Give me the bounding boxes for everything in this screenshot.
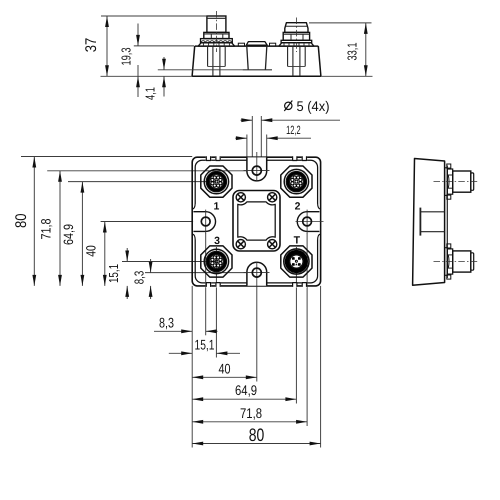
front view: screw 1	[236, 193, 245, 202]
svg-text:15,1: 15,1	[106, 264, 121, 283]
top view connector: molded skirt	[279, 43, 314, 46]
socket 1: octagonal bezel	[201, 166, 232, 197]
top view connector: skirt knurl ticks	[202, 43, 204, 46]
top view: body right slanted edge	[318, 46, 321, 76]
dimension 33.1: extension line top	[309, 22, 372, 24]
front view: bottom mounting tab	[247, 262, 267, 286]
side view connector: hex nut profile	[447, 249, 452, 274]
front view: top edge notch	[215, 156, 221, 161]
side view connector: hex nut profile	[447, 169, 452, 194]
top view: right connector bore lines	[292, 46, 294, 76]
socket 1: outer ring	[204, 169, 228, 193]
svg-text:12,2: 12,2	[286, 123, 301, 137]
dimension 80 horizontal: dimension line	[192, 443, 320, 445]
top view connector: knurled washer	[201, 39, 233, 43]
front view: left side hole (dia 5)	[201, 217, 210, 226]
top view connector: hex nut	[204, 32, 229, 38]
dimension 15.1 vertical: dimension line	[126, 248, 128, 262]
side view connector: flange	[445, 248, 448, 276]
socket 3: middle ring	[206, 251, 226, 271]
dimension dia 5 (4x): diameter symbol	[285, 102, 292, 109]
top view: edge bump left of center block	[238, 43, 244, 46]
front view: vertical extension line x=205.7 from left side hole	[205, 233, 207, 335]
front view: bottom tab hole crosshair horizontal	[244, 272, 270, 274]
front view: horizontal extension line y=272.6 (8.3) to bottom tab hole	[145, 272, 257, 274]
svg-text:71,8: 71,8	[39, 219, 54, 240]
front view: top mounting tab	[247, 157, 267, 181]
socket T: square pins	[292, 257, 295, 260]
top view: centerline right connector	[295, 18, 297, 53]
top view connector: nut chamfer line	[283, 33, 309, 35]
top view: bottom extension line right	[321, 75, 373, 77]
front view: horizontal extension line y=156.5 (80)	[21, 156, 192, 158]
socket 2: pins	[299, 182, 302, 185]
socket T: thick coupling ring	[287, 252, 306, 271]
front view: top edge notch	[302, 156, 308, 161]
side view: mounting slot bottom line	[420, 231, 444, 233]
svg-text:4,1: 4,1	[143, 87, 158, 100]
socket 1: thick coupling ring	[208, 173, 225, 190]
svg-text:19,3: 19,3	[118, 48, 133, 66]
dimension 64.9 horizontal: dimension line	[192, 398, 296, 400]
top view: bottom edge of body	[192, 75, 321, 77]
top view connector: molded skirt	[198, 43, 234, 46]
svg-text:8,3: 8,3	[159, 314, 174, 330]
front view: vertical extension line x=296.4 from socket T	[295, 247, 297, 404]
socket 2: thick coupling ring	[288, 173, 305, 190]
front view: top tab hole centerline vertical	[256, 152, 258, 182]
dimension 71.8 vertical: dimension line	[59, 171, 61, 286]
socket T: insert face	[290, 255, 303, 268]
socket T: outer ring	[284, 249, 309, 274]
front view: vertical extension lines hole dia 5 above	[251, 116, 253, 167]
socket 3: insert face	[210, 255, 224, 269]
top view connector: nut facet left	[210, 34, 212, 39]
dimension 33.1: dimension line	[365, 23, 367, 76]
front view: right slot mouth fillet bottom	[318, 234, 320, 240]
socket T: octagonal bezel	[281, 246, 312, 277]
front view: bottom edge notch	[302, 282, 308, 287]
svg-text:1: 1	[213, 201, 219, 213]
front view: vertical extension lines 12.2 above	[246, 135, 248, 158]
front view: top tab hole crosshair horizontal	[244, 170, 270, 172]
dimension 64.9 vertical: dimension line	[81, 182, 83, 286]
dimension 8.3 horizontal: dimension line	[154, 330, 192, 332]
dimension 15.1 horizontal: dimension line	[169, 352, 192, 354]
socket 2: middle ring	[286, 171, 306, 191]
svg-text:8,3: 8,3	[132, 271, 147, 285]
svg-text:5 (4x): 5 (4x)	[297, 98, 330, 114]
front view: screw 3	[236, 240, 245, 249]
front view: vertical extension line x=216.4 from socket 3	[215, 247, 217, 358]
front view: vertical extension line x=192.2 (bottom dims)	[191, 286, 193, 448]
dimension 80 vertical: dimension line	[33, 157, 35, 286]
front view: horizontal extension line y=182 (64.9) to socket row 1	[68, 181, 216, 183]
top view connector: hex nut	[283, 32, 309, 40]
socket 2: octagonal bezel	[281, 166, 312, 197]
dimension 12.2: dimension line	[235, 137, 247, 139]
dimension 40 horizontal: dimension line	[192, 376, 257, 378]
svg-text:3: 3	[214, 235, 220, 247]
svg-text:64,9: 64,9	[235, 382, 257, 398]
svg-text:15,1: 15,1	[195, 336, 215, 352]
front view: top edge notch	[206, 156, 212, 161]
side view connector: skirt bumps	[447, 244, 451, 248]
front view: right side hole crosshair horizontal	[296, 221, 324, 223]
side view: face plate line	[446, 166, 448, 279]
front view: left side hole crosshair vertical	[205, 210, 207, 234]
top view connector: nut facet left	[290, 34, 292, 40]
svg-text:80: 80	[13, 213, 30, 228]
side view connector: end cap	[471, 253, 474, 270]
side view connector: centerline	[434, 181, 479, 183]
top view connector: cap rim line	[286, 25, 308, 27]
socket 1: pins	[219, 182, 222, 185]
dimension 71.8 horizontal: dimension line	[192, 421, 307, 423]
dimension 19.3: dimension line	[137, 24, 139, 46]
top view: center block cap	[246, 42, 267, 46]
side view connector: thread cylinder	[453, 251, 471, 272]
svg-text:37: 37	[83, 38, 100, 53]
front view: body inner contour	[195, 160, 317, 283]
top view: right connector counterbore	[287, 46, 289, 66]
top view connector M12 male: thread cylinder	[207, 16, 226, 32]
front view: bottom edge notch	[292, 282, 298, 287]
socket 2: outer ring	[284, 169, 308, 193]
front view: right side mounting slot	[316, 204, 320, 240]
top view connector: skirt knurl ticks	[283, 43, 285, 46]
dimension 8.3 vertical: dimension line	[150, 259, 152, 273]
socket 1: middle ring	[206, 171, 226, 191]
side view: mounting slot top line	[420, 211, 444, 213]
top view: left connector bore lines	[212, 46, 214, 76]
svg-text:40: 40	[219, 360, 231, 376]
socket 3: outer ring	[204, 249, 228, 273]
front view: bottom edge notch	[206, 282, 212, 287]
dimension 4.1: dimension line	[163, 57, 165, 70]
top view: edge bump right of center block	[270, 43, 276, 46]
front view: right side hole (dia 5)	[303, 217, 312, 226]
front view: left side mounting slot	[193, 204, 197, 240]
front view: bottom tab hole centerline vertical	[256, 262, 258, 287]
top view: recess bottom line (4.1 feature)	[158, 69, 243, 71]
top view connector: washer scallops	[201, 41, 205, 43]
side view: mounting slot end bar	[419, 208, 421, 236]
front view: left slot mouth fillet bottom	[193, 234, 195, 240]
front view: vertical extension line x=307.1 from right side hole	[306, 233, 308, 426]
side view connector: end cap	[471, 173, 474, 190]
svg-text:71,8: 71,8	[240, 405, 262, 421]
dimension dia 5 (4x): dimension line	[241, 119, 253, 121]
top view connector: nut facet right	[222, 34, 224, 39]
dimension 40 vertical: dimension line	[104, 222, 106, 286]
svg-text:2: 2	[295, 201, 301, 213]
socket 2: insert face	[290, 175, 304, 189]
dimension 37: dimension line	[106, 16, 108, 76]
svg-text:64,9: 64,9	[61, 224, 76, 245]
front view: vertical extension line x=256.4 from bottom tab hole	[256, 277, 258, 382]
front view: horizontal extension line y=221.5 (40) to left side hole	[101, 221, 216, 223]
side view: body outline	[413, 159, 445, 286]
svg-text:40: 40	[84, 245, 99, 257]
front view: top edge notch	[292, 156, 298, 161]
top view: left connector counterbore	[207, 46, 209, 66]
top view: body left slanted edge	[192, 46, 195, 76]
front view: bottom edge notch	[215, 282, 221, 287]
front view: left slot mouth fillet top	[193, 203, 195, 209]
socket 3: pins	[219, 262, 222, 265]
top view connector: cap line	[207, 17, 226, 19]
front view: center square outer frame	[233, 191, 280, 252]
front view: bottom tab hole (dia 5)	[252, 268, 261, 277]
top view: center block left side	[247, 45, 249, 69]
socket 3: thick coupling ring	[208, 253, 225, 270]
top view connector: nut chamfer line	[204, 33, 229, 35]
top view connector M12 capped: protection cap	[285, 23, 308, 33]
front view: horizontal extension line y=170.8 (71.8) to top tab hole	[47, 170, 257, 172]
socket 1: insert face	[210, 175, 224, 189]
top view connector: nut facet right	[302, 34, 304, 40]
front view: body outer square	[192, 157, 320, 286]
front view: horizontal extension line y=261.5 (15.1) to socket row 2	[122, 261, 216, 263]
svg-text:33,1: 33,1	[345, 43, 360, 61]
front view: vertical extension line x=320.6 (bottom dims)	[320, 286, 322, 448]
side view connector: centerline	[434, 261, 479, 263]
top view: centerline left connector	[215, 11, 217, 52]
top view: center block right side	[265, 45, 267, 69]
front view: right side hole crosshair vertical	[306, 210, 308, 234]
top view: bottom extension line left	[101, 75, 193, 77]
top view: body top edge	[195, 45, 319, 47]
svg-text:T: T	[294, 235, 301, 247]
front view: top tab hole (dia 5)	[252, 166, 261, 175]
side view connector: flange	[445, 168, 448, 196]
front view: screw 2	[268, 193, 277, 202]
svg-text:80: 80	[249, 425, 265, 445]
side view connector: thread cylinder	[453, 171, 471, 192]
front view: right slot mouth fillet top	[318, 203, 320, 209]
top view connector: washer	[281, 40, 312, 42]
dimension 37: extension line top	[101, 15, 207, 17]
front view: screw 4	[268, 240, 277, 249]
socket 3: octagonal bezel	[201, 246, 232, 277]
side view connector: skirt bumps	[447, 164, 451, 168]
dimension 19.3: extension line	[134, 45, 194, 47]
front view: center square inner contour with screw bosses	[238, 202, 275, 240]
